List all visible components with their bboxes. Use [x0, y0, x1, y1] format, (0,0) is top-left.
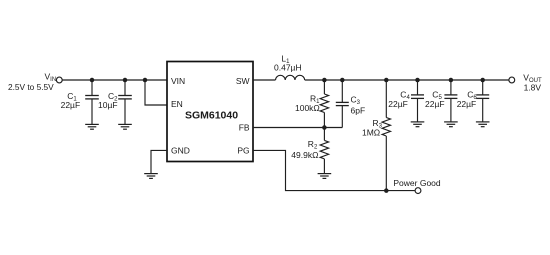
- svg-text:EN: EN: [171, 99, 183, 109]
- node junction C6: [480, 78, 485, 83]
- label R1 100kOhm: [295, 94, 320, 114]
- ground C5: [444, 122, 458, 127]
- svg-text:Power Good: Power Good: [393, 178, 441, 188]
- node VOUT terminal: [509, 77, 515, 83]
- svg-text:6pF: 6pF: [351, 105, 366, 115]
- ground GND pin: [144, 174, 158, 179]
- wire output rail: [305, 79, 509, 81]
- node VIN terminal: [56, 77, 62, 83]
- node junction PG R3: [384, 188, 389, 193]
- capacitor C3: [336, 80, 349, 128]
- capacitor C1: [85, 80, 99, 124]
- wire input rail: [62, 79, 167, 81]
- wire PG: [253, 150, 415, 190]
- label C6 22uF: [457, 90, 478, 109]
- ground C1: [85, 124, 99, 129]
- svg-text:R2: R2: [308, 139, 318, 151]
- svg-text:100kΩ: 100kΩ: [295, 103, 320, 113]
- svg-text:22µF: 22µF: [388, 99, 408, 109]
- ground C2: [118, 124, 132, 129]
- node junction C3 top: [340, 78, 345, 83]
- label C1 22uF: [61, 91, 81, 110]
- capacitor C5: [444, 80, 457, 122]
- label R3 1MOhm: [362, 118, 383, 138]
- node junction R1 top: [322, 78, 327, 83]
- label C4 22uF: [388, 90, 410, 109]
- wire GND pin: [151, 150, 167, 173]
- resistor R2: [320, 128, 328, 174]
- wire SW: [253, 79, 276, 81]
- node junction C2: [123, 78, 128, 83]
- node Power Good terminal: [415, 188, 421, 194]
- capacitor C4: [411, 80, 424, 122]
- node junction FB: [322, 125, 327, 130]
- svg-text:22µF: 22µF: [61, 100, 81, 110]
- node junction C5: [449, 78, 454, 83]
- capacitor C2: [118, 80, 132, 124]
- svg-text:0.47µH: 0.47µH: [274, 63, 302, 73]
- label L1 0.47uH: [274, 54, 302, 73]
- svg-text:SGM61040: SGM61040: [185, 109, 238, 121]
- svg-text:49.9kΩ: 49.9kΩ: [291, 150, 318, 160]
- wire FB: [253, 127, 342, 129]
- svg-text:FB: FB: [239, 123, 250, 133]
- node junction EN tap: [143, 78, 148, 83]
- ground R2: [318, 174, 332, 179]
- node junction C4: [415, 78, 420, 83]
- ground C6: [476, 122, 490, 127]
- label C2 10uF: [98, 91, 118, 110]
- label R2 49.9kOhm: [291, 139, 318, 160]
- svg-text:22µF: 22µF: [425, 99, 445, 109]
- svg-text:SW: SW: [236, 76, 250, 86]
- node junction R3 top: [384, 78, 389, 83]
- svg-text:10µF: 10µF: [98, 100, 118, 110]
- svg-text:2.5V to 5.5V: 2.5V to 5.5V: [8, 82, 54, 92]
- label C5 22uF: [425, 90, 445, 109]
- resistor R1: [320, 80, 328, 128]
- svg-text:1MΩ: 1MΩ: [362, 128, 380, 138]
- resistor R3: [382, 80, 390, 191]
- wire EN: [145, 80, 167, 105]
- capacitor C6: [476, 80, 489, 122]
- svg-text:1.8V: 1.8V: [524, 82, 542, 92]
- op-amp U1 SGM61040 box: [167, 62, 253, 162]
- svg-text:PG: PG: [237, 146, 249, 156]
- svg-text:VIN: VIN: [171, 76, 185, 86]
- svg-text:GND: GND: [171, 146, 190, 156]
- svg-text:22µF: 22µF: [457, 99, 477, 109]
- ground C4: [411, 122, 425, 127]
- inductor L1: [276, 75, 305, 80]
- label C3 6pF: [351, 95, 366, 116]
- node junction C1: [90, 78, 95, 83]
